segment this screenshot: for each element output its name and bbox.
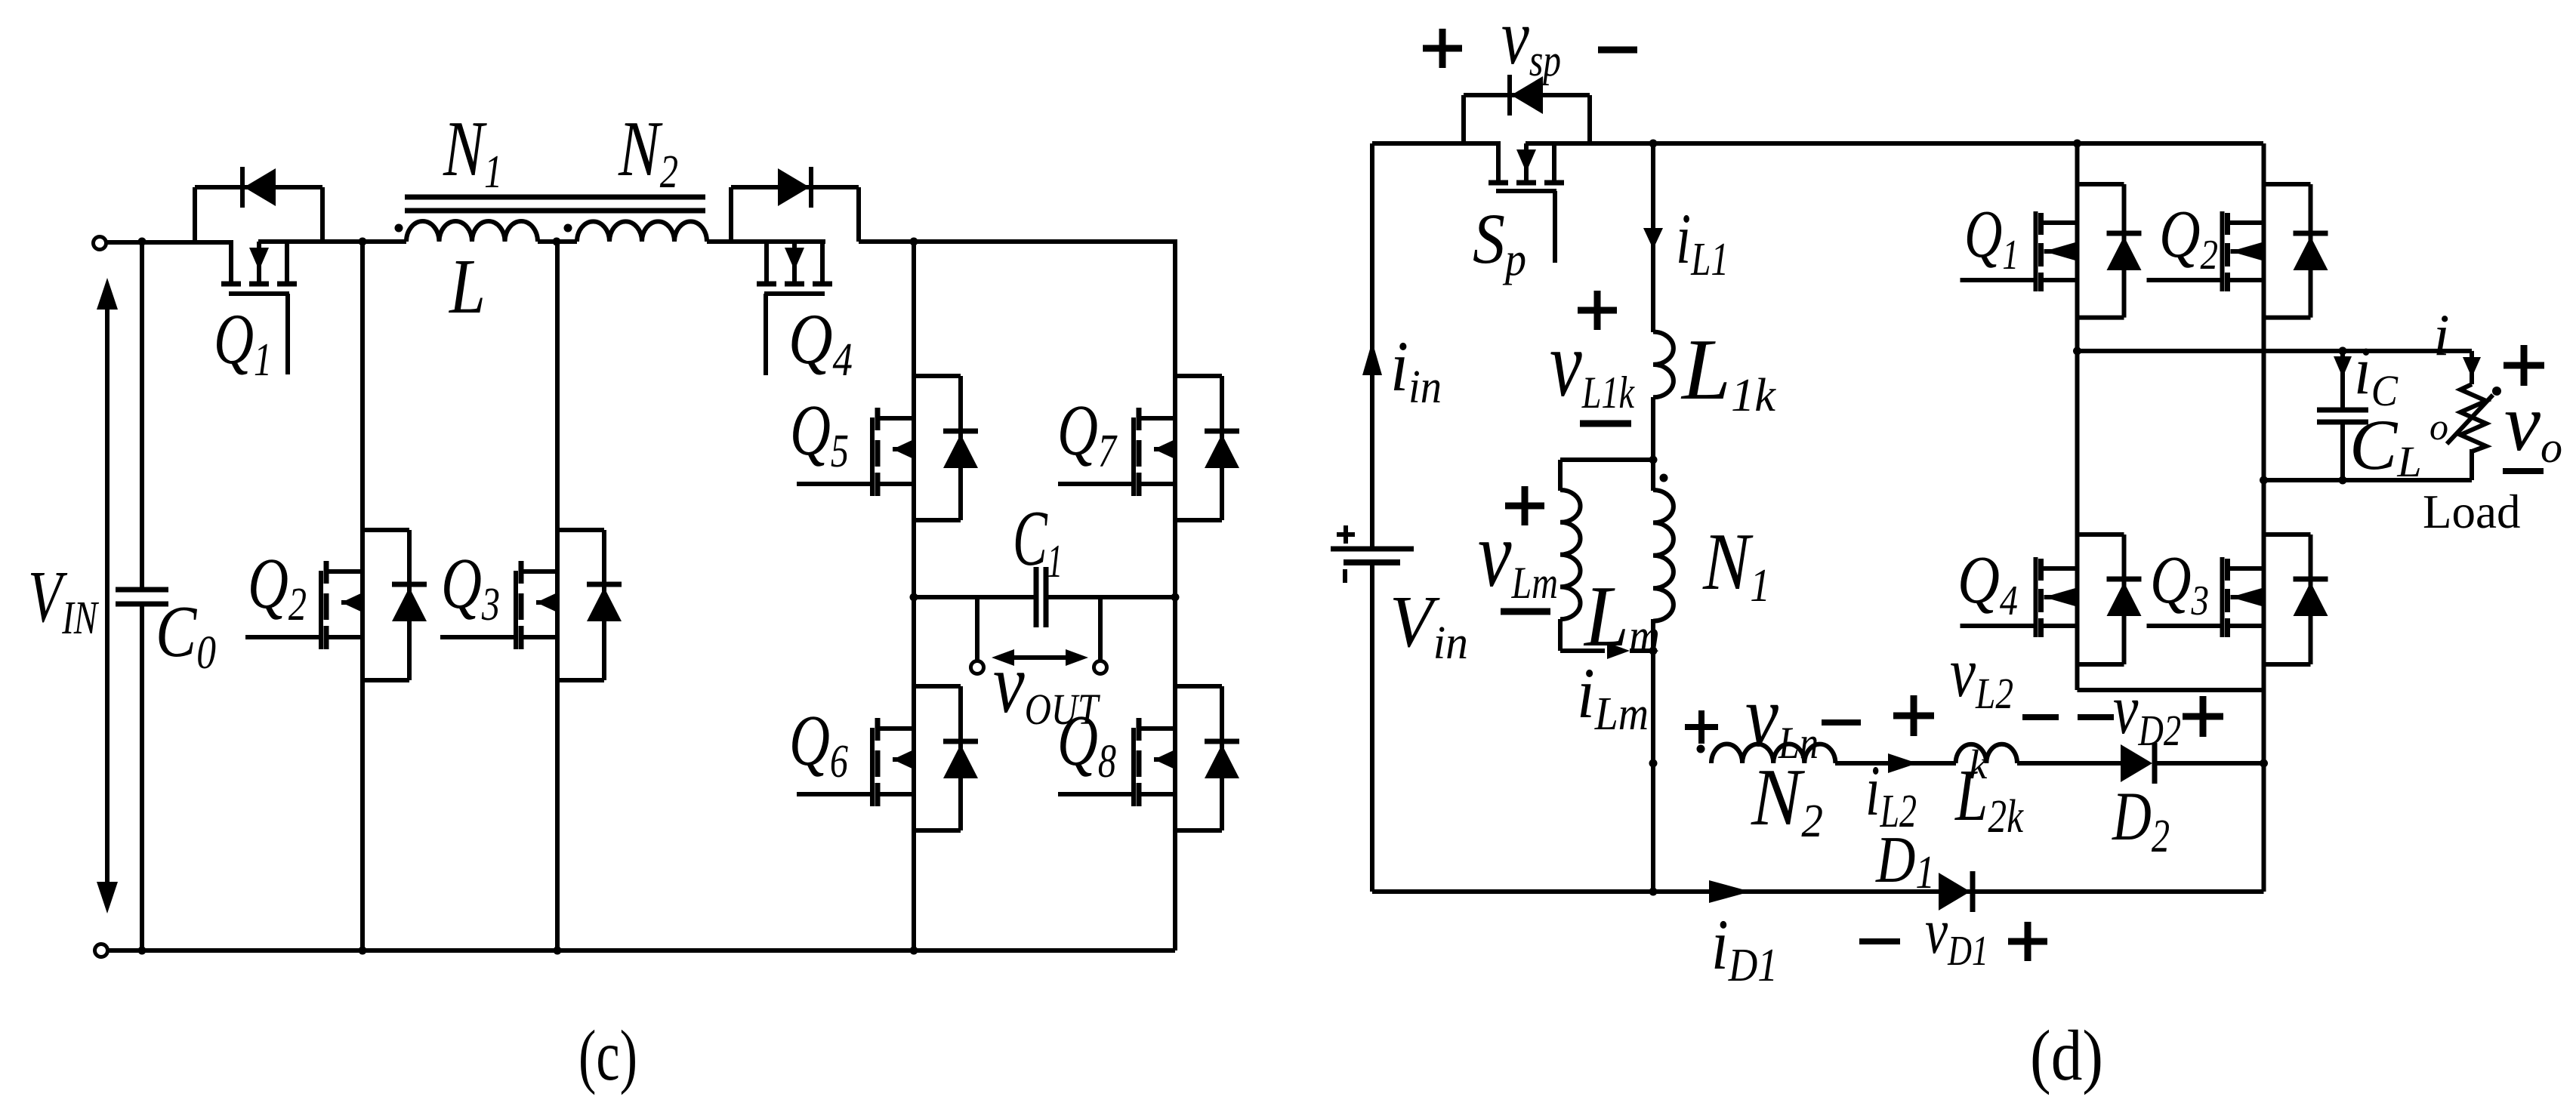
label Q6 <box>789 700 848 787</box>
node N2d <box>1649 759 1658 768</box>
label D1 <box>1875 824 1935 898</box>
wire CL stub bottom <box>2340 422 2345 480</box>
node bottom rail 4 <box>910 947 918 955</box>
transistor Q4d <box>1961 535 2142 664</box>
wire top rail d <box>1372 141 2263 146</box>
label iLm <box>1577 653 1649 740</box>
inductor L2k winding <box>1956 744 2017 763</box>
node D2 leg <box>2260 759 2268 768</box>
node mid rail right <box>1171 593 1180 602</box>
transistor Q2d <box>2147 184 2328 318</box>
wire bridge mid leg <box>555 242 560 950</box>
wire rail Q4 to corner <box>859 239 1175 244</box>
iD1 arrow <box>1709 880 1751 903</box>
wire d main vertical 2 <box>1651 397 1655 491</box>
label CL <box>2349 405 2422 486</box>
wire bridge leg Q7Q8 <box>1173 239 1177 950</box>
label D2 <box>2111 778 2170 862</box>
iC arrow <box>2334 356 2352 377</box>
battery plus <box>1337 525 1355 544</box>
diode D2 <box>2121 743 2155 784</box>
transistor Sp <box>1464 75 1590 263</box>
label VIN <box>28 556 100 644</box>
wire mid rail <box>914 595 1175 599</box>
label C1 <box>1013 494 1063 587</box>
wire left input vertical <box>140 242 144 950</box>
minus vD2 <box>2078 714 2114 720</box>
node top-left junction <box>138 238 147 246</box>
transistor Q1 <box>195 167 322 374</box>
label vo <box>2504 378 2562 472</box>
node d mid rail left <box>2073 347 2081 355</box>
svg-text:i: i <box>2433 302 2450 368</box>
label Q2d <box>2159 197 2218 279</box>
label iC <box>2354 334 2399 415</box>
i load arrow <box>2463 357 2481 377</box>
node bottom rail 3 <box>554 947 562 955</box>
caption (d) <box>2030 1015 2103 1095</box>
svg-text:L: L <box>448 243 486 330</box>
label vD2 <box>2113 670 2181 755</box>
plus vL1k <box>1578 291 1617 330</box>
node Lm top <box>1649 456 1658 464</box>
inductor N2 winding <box>577 221 707 242</box>
label Vin <box>1390 581 1468 669</box>
terminal top-left <box>94 237 106 250</box>
label o load <box>2429 405 2448 448</box>
label L1k <box>1680 322 1776 421</box>
battery minus tick <box>1343 569 1347 583</box>
label Q8 <box>1057 700 1116 787</box>
battery Vin <box>1331 549 1414 562</box>
label Q3 <box>441 543 500 630</box>
terminal vout right <box>1094 661 1107 674</box>
plus vsp <box>1423 29 1462 68</box>
label vLm <box>1478 503 1558 608</box>
label Lm <box>1583 568 1660 665</box>
wire bridge left leg <box>360 242 365 950</box>
polarity dot N1d <box>1660 474 1668 482</box>
minus vL2 <box>2022 714 2059 720</box>
vout double arrow <box>992 649 1088 666</box>
label iD1 <box>1711 904 1778 991</box>
transistor Q6 <box>797 686 978 830</box>
wire d leg B <box>2262 143 2266 892</box>
label vOUT <box>993 637 1100 734</box>
label vL1k <box>1550 313 1635 417</box>
iLm arrow <box>1607 642 1630 659</box>
wire d out rail <box>2264 478 2473 482</box>
capacitor CL <box>2317 410 2368 422</box>
wire top rail left segment <box>106 242 406 242</box>
label N1d <box>1702 517 1770 612</box>
resistor load zigzag <box>2460 384 2486 451</box>
label i load <box>2433 302 2450 368</box>
transistor Q3d <box>2147 535 2328 664</box>
polarity dot N1 <box>395 224 403 233</box>
capacitor C1 <box>1036 567 1046 627</box>
iL2 arrow <box>1888 753 1917 773</box>
plus vLn <box>1685 710 1718 744</box>
label Q2 <box>248 543 307 630</box>
transistor Q4 <box>731 167 859 375</box>
label N2d <box>1751 753 1823 847</box>
label Q4d <box>1957 543 2018 624</box>
svg-text:(d): (d) <box>2030 1015 2103 1095</box>
transistor Q8 <box>1058 686 1239 830</box>
node bottom rail 1 <box>138 947 147 955</box>
wire bottom rail <box>108 948 1175 953</box>
wire d leg A <box>2075 143 2080 690</box>
node transformer mid <box>553 238 561 246</box>
wire vout stub right <box>1098 597 1103 661</box>
node top rail iL1 <box>1649 140 1658 148</box>
wire d main vertical top <box>1651 143 1655 332</box>
wire between windings <box>538 239 577 244</box>
label C0 <box>156 591 216 679</box>
node Lm bottom <box>1649 647 1658 655</box>
transistor Q3 <box>440 530 622 680</box>
transistor Q5 <box>797 376 978 520</box>
label Q5 <box>790 390 849 477</box>
label vLn <box>1745 667 1819 768</box>
node mid rail left <box>910 593 918 602</box>
minus vsp <box>1598 47 1637 54</box>
plus vL2 <box>1893 695 1934 736</box>
label N2 <box>618 104 678 198</box>
inductor Lm winding <box>1560 490 1581 619</box>
node d out rail left <box>2260 476 2268 485</box>
label L2k <box>1954 755 2024 843</box>
wire L2k to D2 <box>2017 761 2121 766</box>
minus vD1 <box>1859 938 1900 944</box>
wire Lm top <box>1560 457 1653 462</box>
label Q1 <box>214 299 272 386</box>
wire Lm bottom <box>1560 649 1653 653</box>
transformer core <box>405 197 705 211</box>
iL1 arrow <box>1643 228 1663 249</box>
polarity dot N2d <box>1697 745 1705 753</box>
label Load <box>2423 485 2520 538</box>
inductor N1d winding <box>1653 490 1674 621</box>
wire Lm left top <box>1558 460 1563 491</box>
svg-text:Load: Load <box>2423 485 2520 538</box>
inductor N1 winding <box>406 221 538 242</box>
wire N2 to L2k <box>1835 761 1956 766</box>
wire load bottom <box>2470 449 2474 480</box>
node top rail Q1-leg <box>2073 140 2081 148</box>
capacitor C0 <box>116 590 168 604</box>
label Sp <box>1473 199 1526 285</box>
label vL2 <box>1950 633 2013 718</box>
node d mid rail CL <box>2339 347 2347 355</box>
label vD1 <box>1925 895 1988 975</box>
label vsp <box>1501 0 1561 85</box>
transistor Q2 <box>245 530 427 680</box>
svg-text:(c): (c) <box>578 1015 637 1095</box>
wire d bottom rail <box>1372 889 2264 894</box>
label N1 <box>443 104 502 198</box>
label L <box>448 243 486 330</box>
wire d main vertical 3 <box>1651 619 1655 892</box>
plus vD2 <box>2183 696 2223 737</box>
terminal bottom-left <box>95 944 108 957</box>
wire D2 to leg <box>2157 761 2264 766</box>
caption (c) <box>578 1015 637 1095</box>
iin arrow <box>1362 341 1382 375</box>
load arrow diagonal <box>2447 387 2501 444</box>
wire vout stub left <box>975 597 979 661</box>
svg-text:o: o <box>2429 405 2448 448</box>
plus vLm <box>1505 486 1544 525</box>
wire CL stub top <box>2340 351 2345 408</box>
label iL2 <box>1865 750 1917 837</box>
wire d legs bottom <box>2078 688 2264 692</box>
node d out rail CL <box>2339 476 2347 485</box>
node top rail Q5-leg <box>910 238 918 246</box>
wire bridge leg Q5Q6 <box>912 242 916 950</box>
minus vL1k <box>1580 421 1631 427</box>
inductor N2d winding <box>1711 744 1835 763</box>
minus vLn <box>1822 719 1861 726</box>
plus vD1 <box>2008 922 2047 961</box>
VIN arrow <box>97 278 118 913</box>
minus vo <box>2503 468 2544 474</box>
terminal vout left <box>971 661 984 674</box>
label k stray <box>1969 741 1988 787</box>
label Q4 <box>788 299 853 386</box>
label Q7 <box>1057 390 1118 477</box>
node d bottom rail main <box>1649 888 1658 896</box>
transistor Q7 <box>1058 376 1239 520</box>
node junction Q2-leg top <box>359 238 367 246</box>
wire rail N2 to Q4 <box>707 239 825 244</box>
wire Lm left bottom <box>1558 619 1563 651</box>
plus vo <box>2504 345 2544 386</box>
polarity dot N2 <box>564 224 572 233</box>
label iL1 <box>1676 199 1729 285</box>
node bottom rail 2 <box>359 947 367 955</box>
transistor Q1d <box>1961 184 2142 318</box>
inductor L1k <box>1653 332 1674 398</box>
minus vLm <box>1501 608 1550 615</box>
wire d left vertical <box>1370 143 1374 892</box>
label iin <box>1390 326 1442 413</box>
diode D1 <box>1939 871 1973 912</box>
wire load top <box>2470 351 2474 384</box>
wire d mid rail <box>2078 349 2473 353</box>
label Q3d <box>2150 543 2209 624</box>
label Q1d <box>1964 197 2019 279</box>
